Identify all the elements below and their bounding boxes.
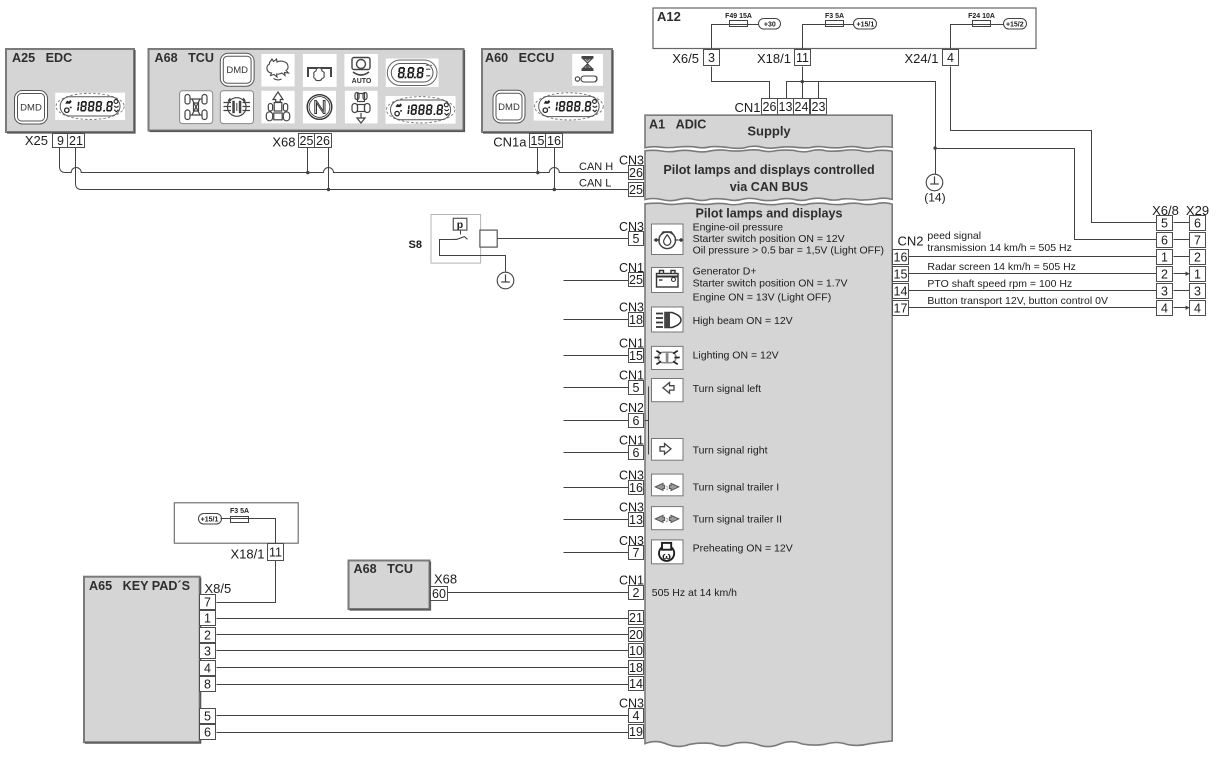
svg-text:Generator D+: Generator D+: [693, 266, 757, 278]
wire CN2-16 to X6/8-1: [909, 256, 1157, 258]
svg-text:13: 13: [629, 513, 643, 527]
wire X68-60 to CN1-2: [448, 592, 629, 594]
module A1 section pilot lamps: [645, 203, 892, 747]
wire CN2-15 to X6/8-2: [909, 273, 1157, 275]
svg-text:3: 3: [708, 51, 715, 65]
connector CN1 (A1 top): [734, 99, 826, 116]
svg-text:Turn signal trailer I: Turn signal trailer I: [693, 482, 780, 494]
icon rabbit (speed range): [261, 54, 294, 87]
svg-text:15: 15: [531, 134, 545, 148]
pin X8/5-3: [200, 644, 216, 659]
svg-text:26: 26: [316, 134, 330, 148]
svg-text:1: 1: [1194, 268, 1201, 282]
svg-text:A65 KEY PAD´S: A65 KEY PAD´S: [89, 579, 190, 593]
svg-text:2: 2: [1161, 268, 1168, 282]
ground (14): [926, 174, 943, 191]
svg-text:DMD: DMD: [498, 102, 520, 113]
svg-text:2: 2: [633, 586, 640, 600]
wire X8/5-1 to A1-21: [217, 618, 629, 620]
connector X18/1 (bottom): [231, 544, 284, 562]
wire CN1a-15 to CAN H: [537, 148, 539, 173]
pin X6/8-2: [1157, 267, 1173, 282]
svg-text:+15/1: +15/1: [857, 22, 875, 29]
module A12: [653, 8, 1036, 49]
svg-text:A1 ADIC: A1 ADIC: [649, 118, 706, 132]
wire stub CN1-5: [564, 387, 629, 389]
svg-text:ω: ω: [662, 551, 671, 563]
fuse F24 10A: [968, 13, 995, 27]
svg-text:16: 16: [547, 134, 561, 148]
supply +15/2: [1004, 19, 1027, 30]
wire X8/5-2 to A1-20: [217, 634, 629, 636]
pin X29-4: [1190, 301, 1206, 316]
icon lift up: [261, 91, 294, 124]
svg-text:16: 16: [629, 481, 643, 495]
pin X8/5-7: [200, 595, 216, 610]
pin X29-7: [1190, 233, 1206, 248]
pin A1-20: [629, 628, 644, 643]
svg-text:via CAN BUS: via CAN BUS: [730, 180, 808, 194]
svg-text:Pilot lamps and displays contr: Pilot lamps and displays controlled: [663, 163, 874, 177]
svg-text:20: 20: [629, 628, 643, 642]
pin X8/5-8: [200, 677, 216, 692]
wire fuse F3 branch: [803, 25, 826, 49]
switch S8: [409, 215, 506, 272]
svg-text:9: 9: [57, 134, 64, 148]
svg-text:X68: X68: [272, 135, 295, 150]
icon hourglass/cylinder: [572, 54, 603, 86]
wire fuse F24 branch: [951, 25, 973, 49]
pin A1-14: [629, 677, 644, 692]
svg-text:1: 1: [665, 486, 668, 492]
svg-text:4: 4: [1161, 302, 1168, 316]
svg-text:5: 5: [1161, 217, 1168, 231]
wire X18/1-11 to CN1-24: [802, 67, 804, 99]
connector X18/1 (A12): [757, 50, 810, 67]
fuse box +15/1 (bottom): [174, 503, 298, 544]
connector X68: [272, 134, 331, 150]
icon turn signal trailer II: [652, 507, 684, 530]
svg-text:A68 TCU: A68 TCU: [354, 562, 413, 576]
svg-text:3: 3: [1161, 285, 1168, 299]
svg-text:F3 5A: F3 5A: [825, 13, 844, 20]
display A60 LCD: [534, 92, 604, 120]
svg-text:+15/1: +15/1: [201, 517, 219, 524]
svg-text:X24/1: X24/1: [905, 51, 939, 66]
display A68 small LCD: [386, 59, 439, 88]
module A68 TCU: [149, 49, 465, 131]
svg-text:CN1: CN1: [734, 100, 760, 115]
CN2 signal texts: [927, 230, 1108, 307]
module A68 TCU (small): [349, 561, 431, 610]
svg-text:21: 21: [629, 611, 643, 625]
svg-text:8: 8: [204, 678, 211, 692]
button DMD A60: [493, 90, 525, 123]
svg-text:Starter switch position ON = 1: Starter switch position ON = 1.7V: [693, 278, 848, 290]
wire branch to CN1-13: [787, 82, 803, 99]
svg-text:CN1a: CN1a: [493, 135, 527, 150]
wire X25-9 to CAN H: [60, 148, 66, 173]
svg-text:6: 6: [633, 446, 640, 460]
wire X8/5-4 to A1-18: [217, 667, 629, 669]
svg-text:6: 6: [633, 414, 640, 428]
pin CN3-4: [629, 709, 644, 724]
wire stub CN3-13: [564, 519, 629, 521]
svg-text:11: 11: [796, 51, 809, 65]
svg-text:13: 13: [779, 100, 793, 114]
module A60 ECCU: [482, 49, 613, 133]
pin X29-2: [1190, 250, 1206, 265]
svg-text:2: 2: [204, 629, 211, 643]
display A25 LCD: [55, 93, 125, 120]
fuse F49 15A: [725, 13, 752, 27]
wire X6/8 to X29 row 1: [1174, 222, 1190, 224]
pin X8/5-4: [200, 661, 216, 676]
svg-text:6: 6: [204, 726, 211, 740]
icon lighting: [652, 346, 684, 369]
svg-text:F24 10A: F24 10A: [968, 13, 995, 20]
wire X6/8 to X29 row 4: [1174, 273, 1190, 275]
svg-text:5: 5: [633, 232, 640, 246]
svg-text:(14): (14): [924, 191, 945, 205]
fuse F3 5A: [825, 13, 844, 27]
svg-text:Oil pressure > 0.5 bar = 1,5V: Oil pressure > 0.5 bar = 1,5V (Light OFF…: [693, 244, 884, 256]
connector CN2-6 turn common: [619, 401, 644, 428]
connector X24/1: [905, 50, 959, 67]
svg-text:Lighting ON = 12V: Lighting ON = 12V: [693, 350, 779, 362]
supply +30: [759, 19, 781, 30]
svg-text:Turn signal left: Turn signal left: [693, 383, 762, 395]
svg-text:4: 4: [633, 709, 640, 723]
svg-text:S8: S8: [409, 239, 422, 251]
pin X6/8-5: [1157, 216, 1173, 231]
A1 description texts: [652, 222, 884, 600]
connector CN3-5 oil pressure: [619, 220, 644, 246]
svg-text:16: 16: [894, 251, 908, 265]
pin X29-6: [1190, 216, 1206, 231]
module A1 section CAN bus: [645, 150, 892, 201]
pin X8/5-6: [200, 725, 216, 740]
svg-text:26: 26: [763, 100, 777, 114]
svg-text:25: 25: [629, 183, 643, 197]
wire X24/1-4 to X6/8-5: [951, 67, 1157, 223]
svg-text:2: 2: [665, 518, 668, 524]
svg-text:60: 60: [432, 587, 446, 601]
wire to X6/8-6: [936, 149, 1157, 240]
svg-text:7: 7: [1194, 234, 1201, 248]
svg-text:7: 7: [633, 546, 640, 560]
svg-text:10: 10: [629, 644, 643, 658]
connector CN3-16 trailer I: [619, 468, 644, 495]
svg-text:X25: X25: [25, 133, 48, 148]
svg-text:25: 25: [300, 134, 314, 148]
connector CN1-25 generator: [619, 261, 644, 287]
icon preheating: [652, 540, 684, 564]
svg-text:Engine ON = 13V (Light OFF): Engine ON = 13V (Light OFF): [693, 292, 832, 304]
svg-text:6: 6: [1161, 234, 1168, 248]
svg-text:p: p: [457, 219, 463, 231]
svg-text:3: 3: [204, 645, 211, 659]
pin X6/8-6: [1157, 233, 1173, 248]
wire stub CN3-7: [564, 552, 629, 554]
pin X6/8-4: [1157, 301, 1173, 316]
wire X68-26 to CAN L: [328, 148, 330, 190]
module A65 KEY PAD'S: [84, 577, 201, 743]
pin CN2-16: [893, 250, 909, 265]
svg-text:transmission 14 km/h = 505 Hz: transmission 14 km/h = 505 Hz: [927, 242, 1071, 254]
connector CN3-25 CAN L: [619, 170, 644, 197]
icon lift down: [345, 91, 378, 124]
pin CN2-17: [893, 301, 909, 316]
wire X8/5-6 to A1-19: [217, 732, 629, 734]
wire stub CN2-6: [564, 420, 629, 422]
svg-text:A60 ECCU: A60 ECCU: [485, 51, 554, 65]
connector CN1-6 turn right: [619, 433, 644, 460]
svg-text:CN2: CN2: [898, 233, 924, 248]
wire X6/8 to X29 row 2: [1174, 239, 1190, 241]
svg-text:3: 3: [1194, 285, 1201, 299]
wire branch to CN1-23 and ground run: [803, 82, 936, 175]
connector CN3-13 trailer II: [619, 500, 644, 527]
icon neutral N: [303, 91, 336, 124]
connector X25: [25, 133, 85, 148]
wire X6/5-3 to CN1-26: [712, 67, 770, 99]
svg-text:24: 24: [795, 100, 809, 114]
svg-text:6: 6: [1194, 217, 1201, 231]
wire CN2-17 to X6/8-4: [909, 307, 1157, 309]
icon engine oil pressure: [652, 224, 684, 255]
svg-text:X8/5: X8/5: [205, 581, 232, 596]
svg-text:X18/1: X18/1: [757, 51, 791, 66]
svg-text:F3 5A: F3 5A: [230, 508, 249, 515]
svg-text:Turn signal trailer II: Turn signal trailer II: [693, 513, 782, 525]
svg-text:2: 2: [1194, 251, 1201, 265]
svg-text:CAN H: CAN H: [579, 161, 613, 173]
svg-text:14: 14: [629, 677, 643, 691]
wire X18/1-11 to X8/5-7: [217, 561, 276, 603]
connector CN3-26 CAN H: [619, 153, 644, 180]
svg-text:A68 TCU: A68 TCU: [155, 51, 214, 65]
svg-text:F49 15A: F49 15A: [725, 13, 752, 20]
svg-text:4: 4: [204, 662, 211, 676]
pin X8/5-2: [200, 628, 216, 643]
button DMD A68: [220, 53, 254, 86]
wire X68-25 to CAN H: [307, 148, 309, 173]
svg-text:Button transport 12V, button c: Button transport 12V, button control 0V: [927, 295, 1108, 307]
svg-text:peed signal: peed signal: [927, 230, 981, 242]
pin CN2-15: [893, 267, 909, 282]
svg-text:A12: A12: [657, 9, 681, 24]
icon AUTO mode: [344, 54, 378, 87]
wire X8/5-8 to A1-14: [217, 684, 629, 686]
svg-text:Pilot lamps and displays: Pilot lamps and displays: [696, 207, 843, 221]
connector CN1-2 speed out: [619, 574, 644, 600]
icon generator battery: [652, 268, 684, 293]
svg-text:21: 21: [69, 134, 83, 148]
svg-text:25: 25: [629, 273, 643, 287]
module A1 ADIC section Supply: [645, 115, 892, 148]
svg-text:A25 EDC: A25 EDC: [12, 51, 72, 65]
svg-text:5: 5: [633, 381, 640, 395]
svg-text:DMD: DMD: [226, 65, 248, 76]
svg-text:19: 19: [629, 725, 643, 739]
svg-text:+15/2: +15/2: [1006, 22, 1024, 29]
wire stub CN1-6: [564, 452, 629, 454]
pin CN3-19: [629, 725, 644, 740]
svg-text:14: 14: [894, 285, 908, 299]
connector CN1-15 lighting: [619, 336, 644, 363]
wire stub CN3-18: [564, 319, 629, 321]
svg-text:17: 17: [894, 302, 908, 316]
pin X6/8-1: [1157, 250, 1173, 265]
connector CN3-18 high beam: [619, 300, 644, 327]
svg-text:Supply: Supply: [747, 124, 791, 139]
icon high beam: [652, 307, 684, 332]
svg-text:7: 7: [204, 596, 211, 610]
svg-text:4: 4: [947, 51, 954, 65]
wire X8/5-3 to A1-10: [217, 650, 629, 652]
module A25 EDC: [6, 49, 135, 133]
junction: [933, 146, 936, 149]
svg-text:Turn signal right: Turn signal right: [693, 445, 768, 457]
wire X6/8 to X29 row 6: [1174, 307, 1190, 309]
connector CN1-5 turn left: [619, 369, 644, 395]
icon turn signal left: [652, 379, 684, 402]
svg-text:505 Hz at 14 km/h: 505 Hz at 14 km/h: [652, 587, 737, 599]
svg-text:1: 1: [204, 612, 211, 626]
wire fuse F49 branch: [712, 25, 730, 49]
svg-text:PTO shaft speed rpm = 100 Hz: PTO shaft speed rpm = 100 Hz: [927, 278, 1072, 290]
svg-text:Radar screen 14 km/h = 505 Hz: Radar screen 14 km/h = 505 Hz: [927, 261, 1076, 273]
wire stub CN1-15: [564, 355, 629, 357]
svg-text:11: 11: [269, 546, 282, 560]
wire stub CN1-25: [564, 280, 629, 282]
pin X8/5-1: [200, 611, 216, 626]
wire CAN L: [82, 189, 629, 191]
svg-text:1: 1: [1161, 251, 1168, 265]
svg-text:4: 4: [1194, 302, 1201, 316]
pin X8/5-5: [200, 709, 216, 724]
icon 4WD chassis: [180, 91, 213, 124]
svg-text:X18/1: X18/1: [231, 547, 265, 562]
button DMD A25: [15, 91, 48, 125]
wire X8/5-5 to A1-4: [217, 715, 629, 717]
wire X6/8 to X29 row 3: [1174, 256, 1190, 258]
pin X6/8-3: [1157, 284, 1173, 299]
wire CN2-14 to X6/8-3: [909, 290, 1157, 292]
pin CN2-14: [893, 284, 909, 299]
connector CN1a: [493, 134, 562, 150]
svg-text:18: 18: [629, 661, 643, 675]
svg-text:X68: X68: [434, 572, 457, 587]
supply +15/1: [854, 19, 877, 30]
svg-text:Starter switch position ON = 1: Starter switch position ON = 12V: [693, 233, 845, 245]
ground S8: [497, 272, 514, 289]
pin A1-10: [629, 644, 644, 659]
svg-text:High beam ON = 12V: High beam ON = 12V: [693, 315, 793, 327]
icon turn signal right: [652, 439, 684, 461]
wire X6/8 to X29 row 5: [1174, 290, 1190, 292]
svg-text:DMD: DMD: [20, 103, 42, 114]
display A68 big LCD: [386, 96, 456, 124]
wire turn signal bracket: [648, 387, 650, 455]
icon implement hitch: [303, 54, 337, 87]
svg-text:Engine-oil pressure: Engine-oil pressure: [693, 222, 784, 234]
wire CAN H: [66, 168, 629, 173]
svg-text:+30: +30: [764, 22, 776, 29]
connector CN3-7 preheating: [619, 534, 644, 560]
svg-text:5: 5: [204, 710, 211, 724]
connector X68 (small): [431, 572, 458, 602]
pin X29-3: [1190, 284, 1206, 299]
svg-text:15: 15: [629, 349, 643, 363]
wire S8 to CN3-5: [498, 238, 629, 240]
pin A1-21: [629, 611, 644, 626]
svg-text:CAN L: CAN L: [579, 178, 611, 190]
svg-text:AUTO: AUTO: [352, 78, 372, 85]
pin X29-1: [1190, 267, 1206, 282]
icon diff lock: [220, 91, 253, 124]
wire X25-21 to CAN L: [76, 148, 82, 190]
svg-text:15: 15: [894, 268, 908, 282]
svg-text:23: 23: [812, 100, 826, 114]
connector X6/5: [672, 50, 719, 67]
svg-text:Preheating ON = 12V: Preheating ON = 12V: [693, 542, 793, 554]
wire stub CN3-16: [564, 487, 629, 489]
wire CN1a-16 to CAN L: [554, 148, 556, 190]
svg-text:X6/5: X6/5: [672, 51, 699, 66]
svg-text:18: 18: [629, 313, 643, 327]
pin A1-18: [629, 661, 644, 676]
icon turn signal trailer I: [652, 474, 684, 496]
